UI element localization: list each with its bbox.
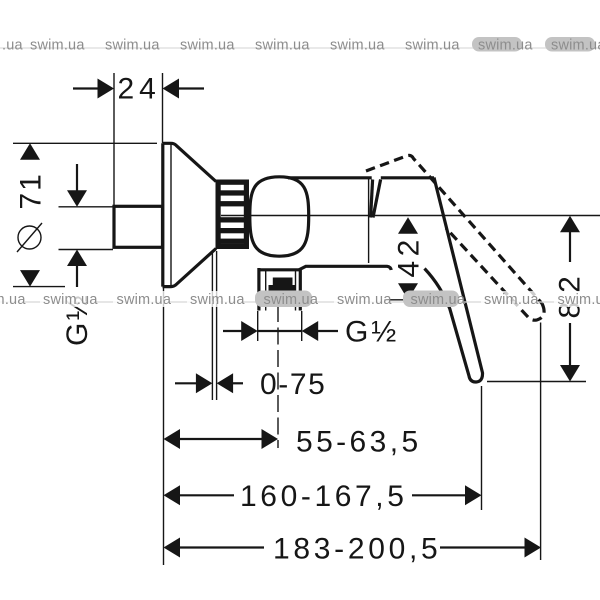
svg-text:swim.ua: swim.ua [30,38,85,54]
diameter symbol [18,226,41,249]
centerline [221,215,600,217]
svg-text:swim.ua: swim.ua [180,38,235,54]
svg-text:swim.ua: swim.ua [484,292,539,308]
body right edge [368,179,370,263]
dimension 42 [384,217,426,299]
dimension O71 ref bottom [13,286,65,288]
body top line to handle base [288,176,372,179]
svg-text:swim.ua: swim.ua [405,38,460,54]
svg-text:G ½: G ½ [345,316,396,349]
svg-text:.ua: .ua [2,38,23,54]
extension double lines 0-75 [211,251,213,400]
dimension 183-200,5 [164,533,542,566]
svg-text:42: 42 [393,235,426,277]
svg-text:swim.ua: swim.ua [551,38,600,54]
handle lever solid [425,178,483,383]
svg-text:swim.ua: swim.ua [264,292,319,308]
svg-text:swim.ua: swim.ua [43,292,98,308]
wire: extension line left of stub (24 dim A) [113,73,115,205]
dimension 160-167,5 [164,480,482,513]
watermark row 1 [0,37,600,54]
dimension 24 [73,73,204,106]
dimension G1/2 left [61,164,94,346]
svg-text:160-167,5: 160-167,5 [240,480,408,513]
outlet walls [259,268,300,311]
body bottom outline [259,266,391,270]
threaded connector [216,180,250,250]
svg-text:swim.ua: swim.ua [411,292,466,308]
pipe stub [114,206,163,247]
valve body dome [250,177,309,256]
svg-text:0-75: 0-75 [260,368,326,401]
outlet plug [269,278,296,292]
dimension 0-75 [175,368,326,401]
svg-text:swim.ua: swim.ua [558,292,600,308]
watermark row 2 [0,291,600,309]
flange escutcheon [163,143,217,286]
svg-text:swim.ua: swim.ua [330,38,385,54]
extension line from dashed tip [540,323,542,561]
dimension O71 ref top [13,142,157,144]
svg-text:24: 24 [118,73,161,106]
handle base left slant [371,180,373,218]
dimension 55-63,5 [164,426,422,459]
svg-text:swim.ua: swim.ua [105,38,160,54]
dimension O71 [15,143,48,286]
svg-text:swim.ua: swim.ua [478,38,533,54]
handle lever dashed alternate [366,155,544,320]
G1/2 bottom ext lines [257,311,259,341]
svg-text:55-63,5: 55-63,5 [296,426,422,459]
svg-text:71: 71 [15,172,48,209]
extension line from solid tip [481,386,483,510]
dimension 82 [487,216,587,382]
outlet centerline dash-dot [277,305,279,448]
extension line from flange (long left) [163,287,165,565]
svg-text:swim.ua: swim.ua [337,292,392,308]
wire: extension line flange face (24 dim B) [162,73,164,143]
dimension G1/2 bottom [223,316,396,349]
svg-text:swim.ua: swim.ua [255,38,310,54]
svg-text:183-200,5: 183-200,5 [273,533,441,566]
svg-text:swim.ua: swim.ua [190,292,245,308]
svg-text:swim.ua: swim.ua [0,292,26,308]
svg-text:swim.ua: swim.ua [117,292,172,308]
dimension G1/2 left refs [59,206,114,208]
